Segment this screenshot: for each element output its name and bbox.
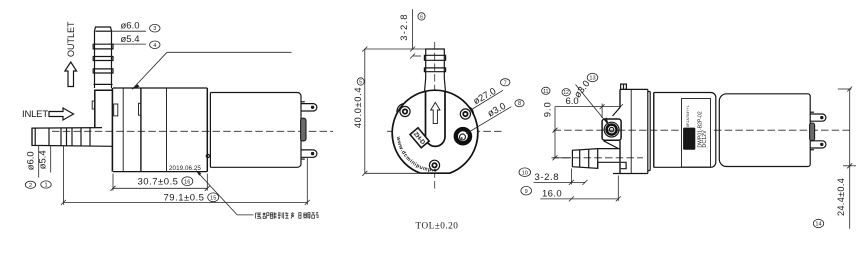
- rear center bump view3: [810, 123, 815, 141]
- dim 6.0 (12): [555, 89, 623, 118]
- svg-text:DC12V: DC12V: [702, 130, 708, 148]
- svg-text:8: 8: [518, 101, 521, 107]
- ZH-D logo on face: [410, 128, 429, 148]
- inlet flange square view3: [602, 119, 621, 140]
- dim 3-2.8 (10): [519, 168, 588, 185]
- pump face disc with flat bottom: [392, 90, 478, 173]
- 生: [285, 212, 288, 218]
- motor rear bump view1: [301, 118, 306, 141]
- motor body view3: [654, 93, 716, 168]
- screw hole top-right: [460, 109, 470, 119]
- OUTLET arrow: [65, 62, 77, 87]
- chinese note: bottom engraved production date code (drawn glyphs): [256, 212, 319, 219]
- svg-text:30.7±0.5: 30.7±0.5: [138, 177, 179, 188]
- mounting lug top-left: [397, 104, 413, 120]
- screw hole top-left: [400, 106, 410, 116]
- svg-text:12: 12: [563, 90, 569, 96]
- svg-text:1: 1: [44, 183, 47, 189]
- dim 40.0±0.4 (5): [353, 47, 431, 176]
- svg-text:ø6.0: ø6.0: [25, 151, 36, 170]
- top barb view2: [424, 49, 445, 91]
- rear terminal top view3: [810, 112, 826, 121]
- bottom notch view3: [621, 162, 626, 168]
- svg-text:13: 13: [589, 76, 595, 82]
- svg-text:3: 3: [153, 26, 156, 32]
- horizontal axis view2: [387, 130, 503, 132]
- dim 16.0 (9): [521, 176, 621, 202]
- INLET arrow: [49, 108, 74, 120]
- inlet barb view3: [572, 149, 620, 169]
- svg-text:16: 16: [184, 179, 190, 185]
- svg-text:2: 2: [29, 183, 32, 189]
- vertical axis view2: [434, 42, 436, 192]
- screw hole bottom: [429, 160, 439, 170]
- svg-text:INLET: INLET: [22, 109, 48, 120]
- motor rear housing view3: [719, 94, 810, 167]
- svg-text:6: 6: [420, 15, 423, 21]
- inlet barb (horizontal): [32, 128, 113, 147]
- svg-text:ø5.4: ø5.4: [121, 34, 140, 45]
- motor label view3: [682, 99, 711, 168]
- 雕: [270, 212, 276, 218]
- dim ø27.0 (7): [470, 79, 510, 111]
- small dot on pump joint: [206, 154, 209, 157]
- dim 9.0 (11): [542, 87, 571, 160]
- svg-text:OUTLET: OUTLET: [66, 21, 76, 57]
- rear terminal bottom view3: [810, 141, 826, 150]
- svg-text:40.0±0.4: 40.0±0.4: [353, 87, 363, 128]
- svg-text:9: 9: [525, 189, 528, 195]
- motor terminal bottom view1: [301, 150, 317, 159]
- dim 79.1±0.5 (15): [61, 146, 310, 205]
- svg-text:8F2A784Y+1: 8F2A784Y+1: [686, 105, 690, 127]
- svg-text:79.1±0.5: 79.1±0.5: [164, 193, 205, 204]
- 底: [256, 213, 262, 219]
- leader to chinese note: [196, 171, 254, 215]
- pump block view3: [613, 89, 648, 173]
- dim 3-2.8 (6): [398, 9, 425, 58]
- svg-text:3-2.8: 3-2.8: [535, 172, 560, 183]
- curved web text on face: [397, 137, 439, 172]
- main axis view3: [554, 129, 854, 131]
- pump head body view1: [112, 88, 207, 172]
- svg-text:14: 14: [815, 222, 821, 228]
- svg-text:3-2.8: 3-2.8: [398, 13, 409, 40]
- svg-text:ZH-D: ZH-D: [687, 130, 694, 147]
- dim ø6.0 (2) inlet: [25, 146, 38, 189]
- outlet tube slot through face: [426, 91, 446, 146]
- funnel below flange: [604, 141, 619, 149]
- inlet port rings view2: [456, 129, 470, 143]
- svg-text:24.4±0.4: 24.4±0.4: [836, 178, 846, 216]
- svg-text:ø5.4: ø5.4: [38, 150, 49, 169]
- top clip tab view3: [621, 84, 627, 89]
- svg-text:5: 5: [359, 80, 362, 86]
- svg-text:ø6.0: ø6.0: [121, 20, 140, 31]
- 期: [304, 213, 310, 219]
- dim ø6.0 (3) outlet: [112, 20, 160, 32]
- 刻: [278, 212, 284, 218]
- svg-text:15: 15: [210, 196, 216, 202]
- motor view1: [210, 93, 301, 168]
- dim 30.7±0.5 (16): [111, 174, 210, 191]
- 日: [299, 213, 301, 219]
- svg-text:16.0: 16.0: [542, 189, 562, 200]
- dim ø3.0 (8): [466, 100, 524, 134]
- collar view3: [648, 92, 654, 171]
- dim ø3.0 (13) leader: [572, 73, 609, 125]
- 码: [312, 213, 318, 219]
- svg-text:7: 7: [504, 80, 507, 86]
- dim 24.4±0.4 (14): [813, 87, 856, 229]
- centerline axis view1: [52, 130, 333, 132]
- mounting lug top-right: [457, 106, 473, 122]
- outlet barb (vertical): [93, 27, 113, 88]
- barb axis view3: [552, 157, 644, 159]
- motor terminal top view1: [301, 102, 317, 111]
- svg-text:9.0: 9.0: [543, 101, 553, 117]
- svg-text:11: 11: [543, 89, 548, 95]
- svg-text:10: 10: [522, 170, 528, 176]
- svg-text:4: 4: [153, 43, 156, 49]
- dim ø5.4 (1) inlet: [38, 146, 52, 189]
- 部: [263, 212, 269, 218]
- flow arrow in slot: [431, 102, 440, 123]
- dim ø5.4 (4) outlet: [108, 34, 160, 49]
- pump head front cover: [92, 90, 112, 127]
- svg-text:TOL±0.20: TOL±0.20: [416, 221, 459, 231]
- leader line to upper note: [132, 52, 292, 89]
- inlet port circles view3: [604, 122, 619, 137]
- mounting lug bottom: [427, 157, 443, 173]
- 产: [291, 212, 294, 218]
